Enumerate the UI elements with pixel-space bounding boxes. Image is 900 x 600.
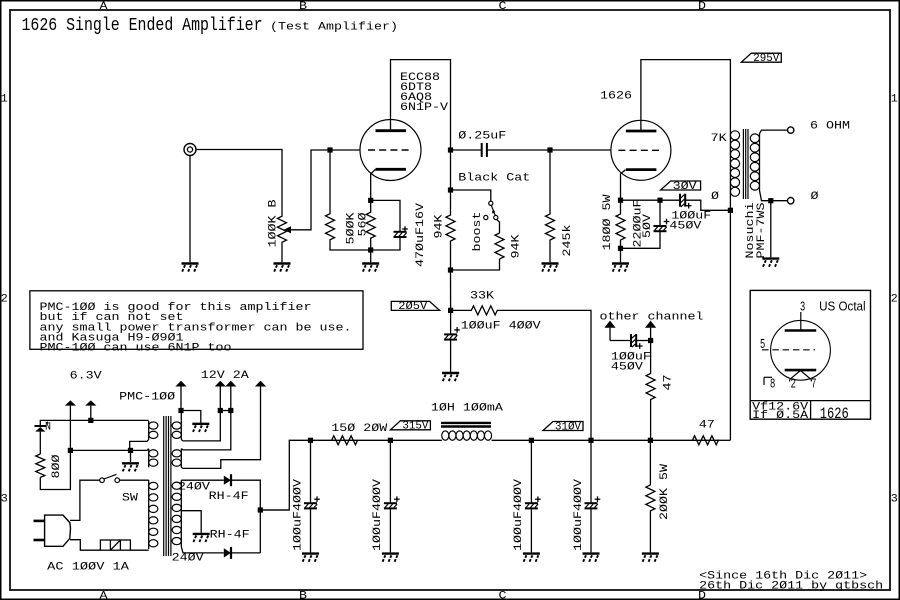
- wire R3 bottom to diode: [181, 547, 224, 553]
- svg-text:3: 3: [891, 494, 898, 506]
- svg-text:2: 2: [1, 294, 8, 306]
- capacitor 100uF400V filter at x=591: [585, 502, 598, 504]
- svg-text:5ØV: 5ØV: [642, 214, 654, 238]
- diode RH-4F top: [224, 476, 231, 485]
- wire 800 bottom: [40, 450, 70, 489]
- wire wiper to grid: [291, 150, 361, 230]
- wire grid node to V2: [550, 149, 611, 151]
- arrow to other channel right: [645, 321, 656, 328]
- wire 205V cap to ground: [450, 340, 452, 372]
- socket pin3 lead: [800, 312, 802, 331]
- junction: [768, 198, 773, 203]
- wire plate supply line: [450, 270, 452, 310]
- svg-text:1626 Single Ended Amplifier: 1626 Single Ended Amplifier: [22, 15, 263, 36]
- arrow 12V b: [225, 381, 236, 387]
- choke 10H 100mA winding: [442, 431, 449, 440]
- svg-text:PMC-1ØØ can use 6N1P too: PMC-1ØØ can use 6N1P too: [40, 343, 232, 355]
- wire filter cap to ground: [310, 509, 312, 552]
- wire filter cap stem: [530, 440, 532, 502]
- flag 205V: [391, 301, 439, 310]
- junction: [448, 187, 453, 192]
- svg-text:1: 1: [891, 94, 898, 106]
- PMC-100 winding AC primary: [148, 480, 150, 549]
- wire filter cap to ground: [389, 509, 391, 552]
- capacitor 470uF16V: [394, 231, 407, 233]
- wire arrow stem: [609, 328, 611, 341]
- wire arrow stem2: [650, 328, 652, 341]
- wire diode2 to node: [231, 552, 260, 554]
- svg-text:1ØØuF4ØØV: 1ØØuF4ØØV: [372, 479, 384, 551]
- wire plate line down: [450, 150, 452, 190]
- socket tube circle: [771, 320, 831, 380]
- socket cathode bar: [785, 369, 817, 372]
- wire switch to primary: [120, 479, 149, 481]
- wire arrow3 stem: [180, 387, 182, 411]
- wire filter cap stem: [310, 440, 312, 502]
- svg-text:295V: 295V: [753, 53, 779, 65]
- AC plug prong top: [34, 520, 45, 523]
- wire heater return: [70, 449, 130, 451]
- wire 200K to ground: [649, 511, 651, 552]
- wire R1 bottom: [181, 411, 220, 441]
- wire arrow5 stem: [230, 387, 232, 411]
- wire R2 bottom: [181, 387, 260, 469]
- wire rail left end: [260, 440, 325, 510]
- wire secondary bottom to 0 terminal: [760, 191, 788, 201]
- pot wiper arrow: [284, 226, 292, 233]
- junction: [388, 438, 393, 443]
- svg-text:Ø: Ø: [811, 191, 819, 203]
- wire grid-leak top lead: [329, 150, 331, 213]
- capacitor 100uF400V filter at x=531.4: [525, 502, 538, 504]
- junction: [657, 198, 662, 203]
- wire fuse to primary bottom: [130, 549, 148, 551]
- ground at cathode network: [362, 262, 379, 264]
- flag 310V: [543, 422, 583, 431]
- resistor 1800 5W cathode: [616, 200, 625, 248]
- resistor 94K plate load: [446, 190, 455, 270]
- svg-text:8: 8: [770, 377, 775, 391]
- wire V2 cathode lead: [621, 170, 626, 201]
- svg-text:If Ø.5A: If Ø.5A: [752, 410, 808, 422]
- svg-text:1ØØuF4ØØV: 1ØØuF4ØØV: [513, 479, 525, 551]
- wire R3 top to diode: [181, 479, 224, 481]
- capacitor 100uF400V filter at x=390.4: [384, 502, 397, 504]
- svg-text:RH-4F: RH-4F: [210, 530, 250, 542]
- choke 10H 100mA core bars: [441, 422, 491, 424]
- wire secondary to ground: [770, 201, 772, 258]
- svg-text:2Ø5V: 2Ø5V: [398, 301, 427, 313]
- wire ground node stem: [130, 450, 132, 462]
- junction: [178, 408, 183, 413]
- wire jack to ground: [189, 156, 191, 263]
- junction: [547, 147, 552, 152]
- resistor 47 other channel: [646, 341, 655, 441]
- terminal 6 OHM: [788, 127, 794, 133]
- junction: [648, 338, 653, 343]
- triode V1 ECC88: [360, 120, 421, 181]
- wire ultrapath cap to OPT bottom: [685, 200, 730, 210]
- arrow heater 1626: [175, 381, 186, 387]
- svg-text:RH-4F: RH-4F: [209, 491, 249, 503]
- svg-text:SW: SW: [122, 493, 138, 505]
- wire secondary top to 6 OHM terminal: [760, 130, 788, 133]
- svg-text:26th Dic 2Ø11 by qtbsch: 26th Dic 2Ø11 by qtbsch: [699, 580, 883, 592]
- svg-text:boost: boost: [472, 212, 484, 252]
- socket heater vee: [790, 371, 801, 380]
- AC plug prong bottom: [34, 539, 45, 542]
- arrow 6.3V right: [85, 400, 96, 405]
- resistor 245k grid leak: [546, 150, 555, 262]
- resistor 47 dropper: [692, 436, 718, 445]
- resistor 150 20W: [325, 436, 390, 445]
- svg-text:6.3V: 6.3V: [70, 370, 102, 382]
- junction: [228, 408, 233, 413]
- PMC-100 winding 12V R1: [180, 421, 182, 440]
- svg-text:C: C: [499, 1, 507, 13]
- svg-text:6 OHM: 6 OHM: [810, 121, 850, 133]
- svg-text:1ØØK B: 1ØØK B: [267, 199, 279, 247]
- wire winding A bottom: [130, 440, 149, 451]
- wire arrow4 stem: [219, 387, 221, 411]
- junction: [368, 247, 373, 252]
- wire pot bottom to ground: [281, 243, 283, 263]
- ground at heater CT: [122, 462, 139, 464]
- wire diode to 800: [39, 432, 41, 454]
- svg-text:1ØH 1ØØmA: 1ØH 1ØØmA: [431, 403, 503, 415]
- fuse 1A: [100, 540, 130, 550]
- junction: [308, 438, 313, 443]
- svg-text:3ØV: 3ØV: [673, 181, 697, 193]
- svg-text:24ØV: 24ØV: [178, 482, 210, 494]
- wire filter cap to ground: [530, 509, 532, 552]
- switch SW: [100, 478, 105, 483]
- svg-text:7: 7: [811, 377, 816, 391]
- socket pin8 lead: [764, 376, 772, 378]
- junction: [618, 198, 623, 203]
- flag 315V: [390, 421, 430, 430]
- svg-text:94K: 94K: [511, 234, 523, 258]
- ground at 200K: [642, 552, 659, 554]
- svg-text:US Octal: US Octal: [819, 299, 866, 313]
- wire rail segment: [591, 439, 650, 441]
- wire rectifier output: [260, 509, 289, 511]
- svg-text:47: 47: [699, 420, 715, 432]
- PMC-100 winding 6.3V A: [148, 421, 150, 440]
- svg-text:7K: 7K: [711, 133, 727, 145]
- wire bypass cap bottom: [371, 238, 400, 250]
- svg-text:Black Cat: Black Cat: [458, 172, 530, 184]
- junction: [448, 267, 453, 272]
- svg-text:24ØV: 24ØV: [172, 552, 204, 564]
- svg-text:1: 1: [1, 94, 8, 106]
- wire rail 47 to junction: [650, 439, 693, 441]
- wire V1 cathode lead: [371, 169, 376, 200]
- junction: [88, 418, 93, 423]
- wire cathode node right: [621, 199, 681, 201]
- ground at filter cap: [382, 552, 399, 554]
- svg-text:B: B: [299, 590, 307, 600]
- svg-text:Ø: Ø: [711, 191, 719, 203]
- capacitor 100uF 400V decoupling: [444, 333, 457, 335]
- switch boost: [489, 201, 493, 205]
- wire jack to volume pot: [197, 150, 283, 217]
- svg-text:5: 5: [760, 337, 765, 351]
- wire R3 center tap: [181, 511, 201, 533]
- note box: [30, 291, 363, 350]
- wire 560 node to ground: [370, 250, 372, 262]
- capacitor 100uF400V filter at x=310.5: [304, 502, 317, 504]
- svg-text:31ØV: 31ØV: [555, 421, 581, 433]
- wire filter cap stem: [389, 440, 391, 502]
- capacitor 100uF 450V ultrapath: [679, 194, 681, 207]
- svg-text:47: 47: [663, 375, 675, 391]
- svg-text:15Ø 2ØW: 15Ø 2ØW: [331, 423, 387, 435]
- junction: [588, 438, 593, 443]
- ground at 245k: [542, 262, 559, 264]
- wire plug bottom to fuse: [70, 540, 100, 551]
- resistor 500K: [326, 213, 335, 241]
- output transformer secondary winding: [759, 134, 761, 191]
- junction: [728, 208, 733, 213]
- wire R2 top: [181, 411, 231, 450]
- svg-text:Ø.25uF: Ø.25uF: [458, 131, 506, 143]
- junction: [448, 147, 453, 152]
- wire arrow1 stem: [69, 406, 71, 451]
- wire R1 top lead: [180, 411, 182, 421]
- wire rail segment2: [531, 439, 591, 441]
- wire filter cap stem: [590, 440, 592, 502]
- PMC-100 winding 6.3V B: [148, 449, 150, 468]
- potentiometer 100K B: [278, 216, 287, 243]
- ground at filter cap: [523, 552, 540, 554]
- PMC-100 core: [163, 416, 165, 556]
- svg-text:C: C: [499, 590, 507, 600]
- svg-text:D: D: [698, 1, 706, 13]
- ground at R1 top: [192, 423, 209, 425]
- svg-text:3: 3: [1, 494, 8, 506]
- socket plate bar: [785, 329, 817, 332]
- wire OPT primary bottom down: [729, 197, 731, 441]
- svg-text:(Test Amplifier): (Test Amplifier): [270, 21, 398, 33]
- junction: [529, 438, 534, 443]
- svg-text:45ØV: 45ØV: [669, 221, 701, 233]
- arrow to other channel left: [604, 321, 615, 328]
- svg-text:1626: 1626: [820, 405, 849, 423]
- wire cathode node to bypass cap: [371, 200, 400, 231]
- wire R1 top to ground: [181, 411, 201, 423]
- svg-text:6N1P-V: 6N1P-V: [400, 102, 448, 114]
- svg-text:2: 2: [791, 377, 796, 391]
- resistor 94K boost: [495, 233, 504, 259]
- ground at 1626 cathode: [612, 262, 629, 264]
- capacitor 0.25uF: [481, 143, 483, 157]
- ground at 240V CT: [193, 533, 210, 535]
- svg-text:1626: 1626: [600, 91, 632, 103]
- US Octal box: [750, 290, 870, 419]
- junction: [68, 448, 73, 453]
- svg-text:A: A: [100, 1, 108, 13]
- AC plug: [45, 515, 71, 546]
- wire 2200uF bottom: [621, 232, 661, 249]
- wire filter cap to ground: [590, 509, 592, 552]
- junction: [218, 408, 223, 413]
- wire diode1 to node: [231, 480, 260, 553]
- diode N: [35, 425, 47, 427]
- svg-text:B: B: [299, 1, 307, 13]
- wire choke to 315V node: [390, 439, 441, 441]
- ground at 205V cap: [442, 372, 459, 374]
- flag 295V: [741, 53, 781, 62]
- wire 33K to B+ rail: [500, 310, 591, 440]
- svg-text:1ØØuF4ØØV: 1ØØuF4ØØV: [573, 479, 585, 551]
- wire 205V cap stem: [450, 310, 452, 333]
- svg-text:2ØØK 5W: 2ØØK 5W: [659, 464, 671, 520]
- wire rail to choke: [492, 439, 532, 441]
- ground at secondary: [762, 257, 779, 259]
- svg-text:1ØØuF4ØØV: 1ØØuF4ØØV: [292, 479, 304, 551]
- junction: [648, 438, 653, 443]
- wire 310V to other channel cap: [610, 340, 631, 342]
- arrow 12V a: [215, 381, 226, 387]
- terminal 0: [788, 198, 794, 204]
- svg-text:PMC-1ØØ: PMC-1ØØ: [119, 391, 175, 403]
- svg-text:N: N: [45, 422, 51, 434]
- arrow 6.3V left: [65, 400, 76, 405]
- arrow 12V c: [255, 381, 266, 387]
- wire winding B top: [131, 449, 149, 451]
- junction: [368, 198, 373, 203]
- wire arrow2 stem: [90, 406, 92, 421]
- svg-text:33K: 33K: [470, 290, 494, 302]
- output transformer primary winding: [729, 131, 731, 197]
- ground at volume pot: [274, 262, 291, 264]
- svg-text:245k: 245k: [562, 224, 574, 256]
- svg-text:other channel: other channel: [600, 312, 704, 324]
- wire 500K bottom: [330, 241, 371, 251]
- junction: [327, 147, 332, 152]
- svg-text:1ØØuF 4ØØV: 1ØØuF 4ØØV: [461, 320, 541, 332]
- input jack J1: [184, 144, 196, 156]
- output transformer core: [742, 129, 744, 199]
- resistor 33K: [451, 306, 500, 315]
- wire B+ rail right segment: [717, 439, 730, 441]
- svg-text:3: 3: [800, 300, 805, 314]
- svg-text:A: A: [100, 590, 108, 600]
- resistor 200K 5W bleeder: [646, 440, 655, 511]
- wire V1 plate to top: [391, 60, 451, 150]
- capacitor 2200uF 50V: [654, 225, 667, 227]
- flag 30V: [661, 181, 701, 190]
- wire V2 plate to OPT: [641, 60, 731, 131]
- wire plate node to coupling cap: [451, 149, 482, 151]
- wire cap to 47 node: [636, 340, 650, 342]
- svg-text:45ØV: 45ØV: [611, 361, 643, 373]
- svg-text:94K: 94K: [434, 214, 446, 238]
- PMC-100 winding 240V R3: [180, 480, 182, 546]
- wire boost branch top: [451, 190, 491, 201]
- svg-text:AC 1ØØV 1A: AC 1ØØV 1A: [47, 562, 129, 574]
- resistor 800: [36, 454, 45, 477]
- wire series link: [220, 410, 231, 412]
- PMC-100 winding 12V R2: [180, 449, 182, 468]
- svg-text:5ØØK: 5ØØK: [346, 212, 358, 244]
- wire plug top to switch: [70, 480, 100, 520]
- wire boost bottom: [451, 259, 500, 270]
- svg-text:315V: 315V: [402, 421, 428, 433]
- wire coupling cap to 1626 grid node: [487, 149, 550, 151]
- diode RH-4F bottom: [224, 548, 231, 557]
- svg-text:18ØØ 5W: 18ØØ 5W: [602, 194, 614, 250]
- capacitor 100uF 450V other channel: [630, 334, 632, 347]
- svg-text:2: 2: [891, 294, 898, 306]
- junction: [448, 308, 453, 313]
- wire 1800 to ground: [620, 248, 622, 262]
- triode V2 1626: [611, 120, 671, 180]
- junction: [618, 246, 623, 251]
- svg-text:12V 2A: 12V 2A: [201, 370, 249, 382]
- resistor 560 cathode: [366, 200, 375, 250]
- svg-text:47ØuF16V: 47ØuF16V: [415, 203, 427, 267]
- ground at filter cap: [302, 552, 319, 554]
- svg-text:8ØØ: 8ØØ: [51, 454, 63, 478]
- wire boost switch to 94K: [497, 219, 500, 233]
- socket grid dashes: [762, 349, 815, 351]
- ground at filter cap: [583, 552, 600, 554]
- junction: [128, 448, 133, 453]
- junction: [258, 507, 263, 512]
- svg-text:PMF-7WS: PMF-7WS: [756, 202, 768, 258]
- wire 6.3V top: [40, 420, 148, 426]
- wire 2200uF stem: [659, 200, 661, 225]
- ground at input jack: [182, 262, 199, 264]
